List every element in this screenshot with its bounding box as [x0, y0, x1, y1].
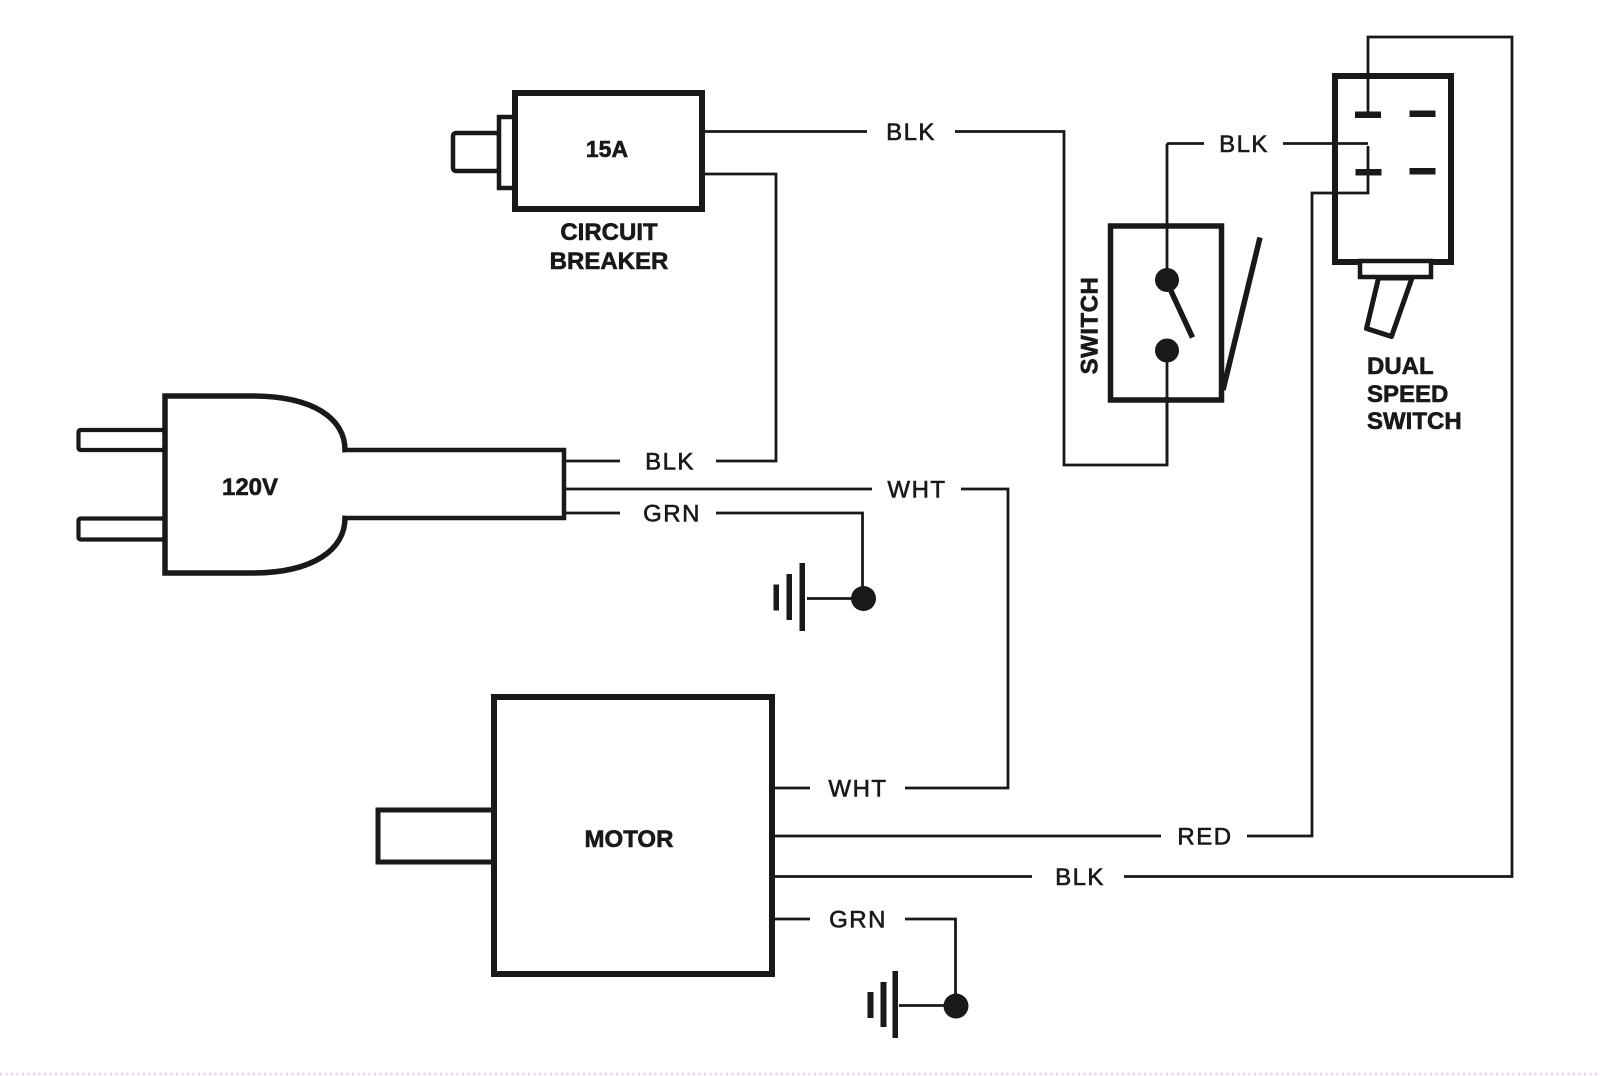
dual speed switch terminal dash top-left — [1355, 112, 1381, 119]
wire BLK: breaker top terminal to label — [702, 130, 867, 133]
wire BLK: breaker bottom terminal down to plug BLK lead — [702, 174, 776, 461]
wire GRN lead from motor — [772, 918, 810, 921]
wire BLK: label to switch bottom terminal — [955, 132, 1167, 466]
wire to ground 2 junction dot — [899, 1004, 944, 1007]
svg-text:SPEED: SPEED — [1367, 381, 1448, 408]
svg-text:WHT: WHT — [828, 776, 887, 803]
plug cord fill — [341, 453, 562, 516]
svg-text:BLK: BLK — [886, 119, 936, 146]
wire WHT: label down to motor WHT label — [905, 489, 1008, 788]
circuit breaker CB1 body — [515, 93, 702, 209]
switch S1 bottom contact dot — [1155, 339, 1179, 363]
svg-text:BREAKER: BREAKER — [550, 248, 669, 275]
wire BLK lead from motor to label — [772, 875, 1032, 878]
wire BLK lead from plug cord — [564, 460, 620, 463]
motor M1 body — [494, 697, 772, 974]
motor M1 shaft — [378, 810, 494, 862]
svg-text:SWITCH: SWITCH — [1367, 408, 1462, 435]
label CIRCUIT BREAKER — [550, 219, 669, 275]
scanner artifact dotted line — [0, 1073, 1600, 1076]
svg-text:120V: 120V — [222, 474, 278, 501]
wire GRN lead from plug cord — [564, 512, 620, 515]
svg-text:CIRCUIT: CIRCUIT — [560, 219, 658, 246]
junction dot ground 1 — [851, 586, 876, 611]
dual speed switch terminal dash bottom-left — [1356, 169, 1382, 176]
circuit breaker CB1 flange — [499, 117, 515, 188]
dual speed switch terminal dash bottom-right — [1410, 168, 1436, 175]
plug prong upper — [79, 430, 166, 450]
wire GRN: label to ground 2 — [905, 919, 956, 998]
plug cord outline — [345, 450, 564, 518]
svg-text:15A: 15A — [586, 136, 628, 162]
wire RED: label up to dual speed switch lower-left terminal — [1247, 146, 1368, 836]
wire: switch top terminal up to BLK label level — [1166, 144, 1169, 281]
wire GRN: label to ground 1 — [716, 513, 863, 592]
switch S1 box — [1111, 226, 1222, 400]
wire: switch bottom contact down through box — [1166, 351, 1169, 466]
svg-text:GRN: GRN — [829, 907, 887, 934]
svg-text:GRN: GRN — [643, 501, 701, 528]
dual speed switch toggle lever — [1367, 278, 1413, 337]
dual speed switch collar — [1360, 261, 1431, 277]
svg-text:BLK: BLK — [1219, 131, 1269, 158]
dual speed switch terminal dash top-right — [1410, 111, 1436, 118]
ground symbol G2 — [868, 971, 899, 1038]
svg-text:RED: RED — [1177, 824, 1232, 851]
wire BLK: switch top to label — [1167, 142, 1204, 145]
plug prong lower — [79, 519, 166, 540]
circuit breaker CB1 button stub — [453, 133, 499, 171]
switch S1 top contact dot — [1155, 268, 1179, 292]
plug P1 body 120V — [165, 396, 345, 573]
svg-text:DUAL: DUAL — [1367, 353, 1434, 380]
wire to ground 1 junction dot — [807, 597, 852, 600]
svg-text:MOTOR: MOTOR — [585, 826, 674, 853]
dual speed switch S2 box — [1335, 76, 1451, 262]
wire BLK: label right, up and to dual speed switch top-left terminal — [1124, 37, 1512, 877]
svg-text:WHT: WHT — [887, 477, 946, 504]
svg-text:BLK: BLK — [1055, 864, 1105, 891]
junction dot ground 2 — [944, 994, 969, 1019]
wire RED lead from motor to label — [772, 835, 1161, 838]
switch S1 moving contact arm — [1171, 291, 1193, 338]
label DUAL SPEED SWITCH — [1367, 353, 1462, 435]
wire WHT lead from plug cord to label — [564, 488, 872, 491]
svg-text:BLK: BLK — [645, 449, 695, 476]
svg-text:SWITCH: SWITCH — [1077, 277, 1104, 375]
wire WHT lead from motor — [772, 787, 810, 790]
switch S1 external lever — [1223, 238, 1260, 391]
ground symbol G1 — [774, 563, 806, 631]
wire BLK: label into dual speed switch — [1283, 142, 1368, 145]
